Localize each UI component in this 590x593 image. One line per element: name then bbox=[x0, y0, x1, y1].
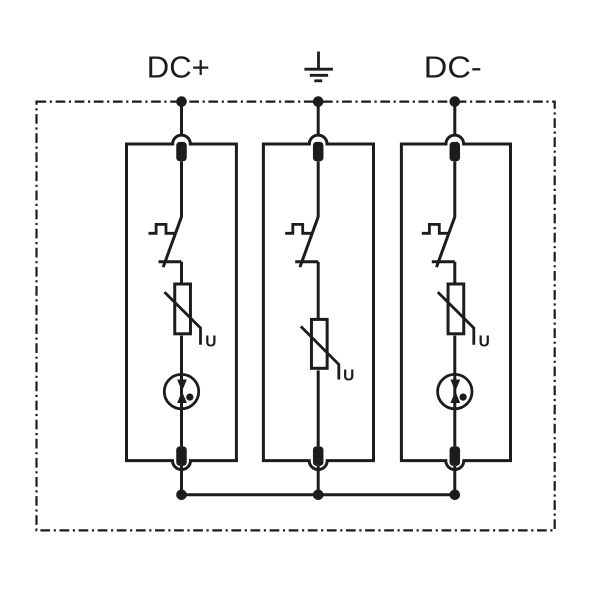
thermal disconnect pulse branch 3 bbox=[422, 224, 449, 233]
switch blade branch 3 bbox=[437, 217, 455, 267]
wire branch 2 upper bbox=[317, 161, 320, 217]
wire branch 3 mid bbox=[453, 262, 456, 284]
wire branch 1 lower bbox=[180, 374, 183, 446]
svg-text:DC+: DC+ bbox=[147, 50, 210, 85]
terminal plug top branch 2 bbox=[313, 142, 324, 161]
thermal disconnect pulse branch 2 bbox=[285, 224, 312, 233]
wire earth drop bbox=[317, 102, 320, 136]
node DC+ junction bbox=[176, 96, 187, 107]
node bus left bbox=[176, 490, 187, 501]
node bus middle bbox=[313, 490, 324, 501]
wire branch 3 to bus bbox=[453, 466, 456, 495]
node DC- junction bbox=[450, 96, 461, 107]
wire branch 3 lower bbox=[453, 374, 456, 446]
varistor branch 3 bbox=[448, 284, 464, 334]
wire DC+ drop bbox=[180, 102, 183, 136]
svg-text:U: U bbox=[205, 333, 216, 350]
varistor branch 1 bbox=[175, 284, 191, 334]
earth symbol bbox=[304, 52, 333, 81]
terminal plug top branch 3 bbox=[450, 142, 461, 161]
switch blade branch 1 bbox=[163, 217, 181, 267]
wire branch 2 lower bbox=[317, 370, 320, 446]
module box branch 1 bbox=[127, 135, 237, 469]
terminal plug top branch 1 bbox=[176, 142, 187, 161]
wire branch 2 to bus bbox=[317, 466, 320, 495]
branch 2 internals (earth) bbox=[285, 142, 354, 495]
branch 3 internals bbox=[422, 142, 490, 495]
terminal plug bottom branch 1 bbox=[176, 446, 187, 466]
module box branch 3 bbox=[401, 135, 510, 469]
wire branch 1 upper bbox=[180, 161, 183, 217]
wire branch 3 upper bbox=[453, 161, 456, 217]
branch 1 internals bbox=[149, 142, 217, 495]
switch contact branch 1 bbox=[159, 260, 182, 263]
thermal disconnect pulse branch 1 bbox=[149, 224, 176, 233]
varistor branch 2 bbox=[311, 319, 327, 368]
switch blade branch 2 bbox=[300, 217, 318, 267]
bottom bus wire bbox=[182, 493, 455, 496]
svg-text:DC-: DC- bbox=[424, 50, 482, 85]
svg-text:U: U bbox=[479, 333, 490, 350]
indicator lamp branch 1 bbox=[164, 374, 198, 408]
enclosure dash-dot border bbox=[37, 102, 555, 531]
wire branch 3 below varistor bbox=[453, 336, 456, 375]
switch contact branch 2 bbox=[295, 260, 318, 263]
node earth junction bbox=[313, 96, 324, 107]
svg-text:U: U bbox=[343, 368, 354, 385]
wire DC- drop bbox=[453, 102, 456, 136]
wire branch 1 mid bbox=[180, 262, 183, 284]
terminal plug bottom branch 3 bbox=[450, 446, 461, 466]
switch contact branch 3 bbox=[432, 260, 455, 263]
node bus right bbox=[450, 490, 461, 501]
terminal plug bottom branch 2 bbox=[313, 446, 324, 466]
indicator lamp branch 3 bbox=[438, 374, 472, 408]
wire branch 2 mid bbox=[317, 262, 320, 319]
wire branch 1 below varistor bbox=[180, 336, 183, 375]
wire branch 1 to bus bbox=[180, 466, 183, 495]
module box branch 2 (earth) bbox=[263, 135, 373, 469]
